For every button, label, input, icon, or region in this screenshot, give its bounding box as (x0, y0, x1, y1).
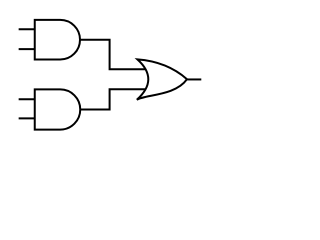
wire input D (AND U2 bottom input) (19, 117, 36, 119)
wire U2 output to OR U3 bottom input (80, 89, 147, 109)
and-gate U1 (35, 20, 80, 60)
wire input B (AND U1 bottom input) (19, 48, 36, 50)
and-gate U2 (35, 89, 81, 129)
or-gate U3 (137, 59, 187, 99)
wire U1 output to OR U3 top input (80, 40, 147, 69)
wire OR U3 output (187, 78, 202, 80)
wire input C (AND U2 top input) (19, 98, 36, 100)
wire input A (AND U1 top input) (19, 28, 36, 30)
logic circuit schematic: two AND gates feeding an OR gate (0, 0, 220, 160)
